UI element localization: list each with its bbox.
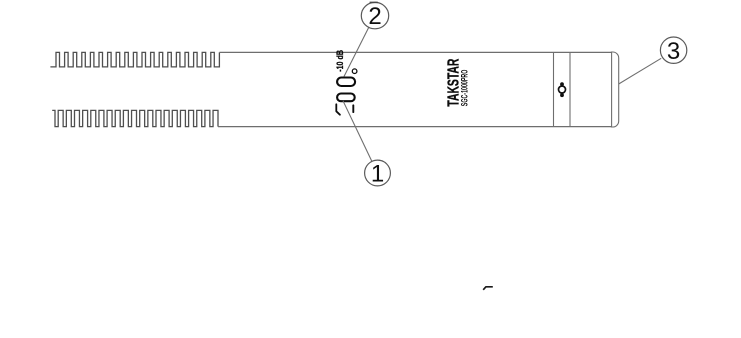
leader line to callout 2: [344, 27, 369, 77]
dash above callout 2: [370, 1, 378, 3]
rear ring groove line left: [553, 52, 555, 126]
callout circle 2: [361, 2, 388, 28]
leader line to callout 3: [619, 58, 662, 84]
svg-text:3: 3: [667, 38, 680, 65]
svg-text:-10 dB: -10 dB: [335, 50, 346, 72]
body bottom edge: [218, 126, 612, 128]
callout circle 3: [660, 37, 686, 63]
label 0 (pad off position): [352, 69, 357, 74]
pad switch S2 (-10dB): [337, 78, 355, 87]
flat-response symbol (straight line): [352, 105, 354, 112]
XLR lock indicator top dot: [560, 82, 564, 86]
svg-text:1: 1: [371, 161, 384, 188]
callout circle 1: [365, 160, 391, 186]
low-cut symbol (bent line): [336, 104, 340, 114]
body right edge: [611, 52, 613, 126]
rear end cap: [611, 52, 619, 127]
interference tube bottom slot row: [52, 110, 218, 126]
stray tick mark: [483, 287, 493, 290]
svg-text:2: 2: [368, 3, 381, 30]
XLR lock indicator bottom dot: [560, 93, 564, 97]
low-cut switch S1: [337, 94, 355, 102]
XLR lock indicator ring: [559, 86, 566, 93]
leader line to callout 1: [343, 101, 372, 162]
rear ring groove line right: [569, 52, 571, 126]
interference tube top slot row: [50, 52, 219, 67]
body top edge: [219, 51, 611, 53]
svg-text:SGC-1000PRO: SGC-1000PRO: [459, 70, 469, 107]
